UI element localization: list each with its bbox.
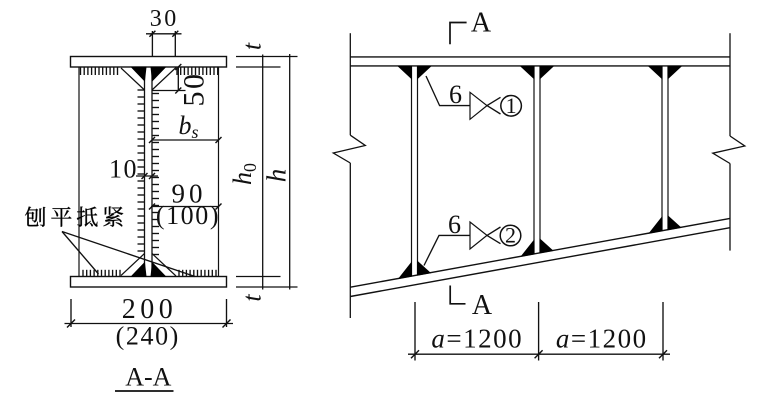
stiffener 1 bottom weld left triangle [399,263,412,279]
svg-text:(240): (240) [116,322,180,351]
dimension 50 tick top [175,64,181,70]
svg-text:t: t [238,294,267,302]
hatch ticks above bottom flange (right group) [179,270,216,277]
dimension 200 extension line right [226,299,228,327]
girder end edge left (upper segment) [349,33,351,135]
stiffener snipe diagonal top-left inner [132,68,145,81]
stiffener 3 left edge [661,66,663,231]
extension line flange bottom right [236,66,281,68]
break zigzag left [333,135,365,163]
svg-text:50: 50 [178,72,211,107]
dimension 50 extension line [152,90,186,92]
dimension a tick 1 [411,350,419,358]
dimension 30 extension line left [151,31,153,56]
dimension a extension line 2 [538,302,540,361]
girder end edge right (upper segment) [729,33,731,136]
weld callout 1 leader [426,76,470,106]
hatch ticks above bottom flange (left group) [83,270,120,277]
extension line bottom flange top right [236,276,281,278]
stiffener 2 right edge [539,66,541,253]
weld callout 2 leader [424,235,470,265]
web left edge [144,67,146,277]
dimension line h [289,54,291,290]
weld callout 2 circled number 2 [500,225,521,246]
svg-text:6: 6 [449,80,462,109]
stiffener left outer edge [78,67,80,277]
dimension line h0 [262,55,264,290]
weld fillet black triangle top-left of web [132,67,147,81]
weld callout 2 fillet symbol triangle [470,222,487,249]
dimension a extension line 1 [414,302,416,361]
stiffener 3 top weld left triangle [649,66,662,78]
dimension 90 tick right [216,204,222,210]
weld tick marks along web left side [138,90,145,251]
svg-text:A: A [472,290,493,321]
bottom chord lower line [350,228,730,297]
stiffener 2 top weld right triangle [540,66,553,78]
svg-text:30: 30 [150,6,179,32]
stiffener snipe diagonal bottom-left outer [121,254,145,276]
dimension b_s line [152,139,219,141]
stiffener 1 left edge [411,66,413,276]
stiffener 1 top weld right triangle [418,66,431,78]
dimension 10 tick right [149,173,155,179]
svg-text:a=1200: a=1200 [556,324,648,354]
hatch ticks under top flange (right group) [177,68,218,76]
svg-text:10: 10 [109,155,138,184]
svg-text:1: 1 [506,93,517,118]
section mark A top [450,23,467,45]
stiffener 3 top weld right triangle [668,66,681,78]
dimension 10 tick left [142,173,148,179]
svg-text:200: 200 [122,294,178,325]
svg-text:t: t [238,42,267,50]
stiffener right outer edge [218,67,220,277]
leader line to bottom-left weld [62,232,99,275]
stiffener snipe diagonal top-right outer [152,68,176,91]
dimension 30 tick left [149,31,155,37]
stiffener 3 bottom weld left triangle [650,217,663,233]
dimension 30 line [146,33,182,35]
dimension 10 line [136,175,158,177]
dimension 90 tick left [149,204,155,210]
dimension b_s tick right [216,137,222,143]
stiffener 2 bottom weld left triangle [522,240,535,256]
stiffener snipe diagonal top-right inner [152,68,165,81]
weld fillet black triangle bottom-right of web [151,263,166,277]
break zigzag right [713,136,745,164]
hatch ticks under top flange (left group) [81,68,118,76]
dimension a tick 3 [659,350,667,358]
stiffener snipe diagonal bottom-left inner [132,263,145,276]
dimension 200 tick right [223,320,231,328]
dimension 50 line vertical [177,67,179,91]
stiffener 2 top weld left triangle [521,66,534,78]
top flange plate [71,57,227,68]
stiffener 2 left edge [533,66,535,254]
svg-text:A: A [471,8,492,39]
svg-text:2: 2 [505,223,516,248]
weld callout 1 circled number 1 [501,96,522,117]
section mark A bottom [450,286,465,304]
svg-text:6: 6 [448,210,461,239]
dimension b_s tick left [149,137,155,143]
stiffener 1 bottom weld right triangle [418,262,431,276]
dimension 30 tick right [172,31,178,37]
weld fillet black triangle bottom-left of web [132,263,147,277]
extension line bottom flange bottom right [236,286,298,288]
section title underline [115,390,174,392]
stiffener 1 top weld left triangle [399,66,412,78]
dimension 50 tick bottom [175,88,181,94]
stiffener 2 bottom weld right triangle [540,239,553,253]
dimension 30 extension line right [174,31,176,56]
dimension 200 extension line left [70,299,72,327]
stiffener 3 right edge [667,66,669,230]
weld fillet black triangle top-right of web [151,67,166,81]
web right edge [151,67,153,277]
svg-text:(100): (100) [156,201,220,230]
extension line flange top right [236,56,298,58]
svg-text:h: h [262,169,292,183]
svg-text:bs: bs [179,111,199,142]
dimension a line [408,353,670,355]
girder end edge left (lower segment) [349,163,351,318]
girder end edge right (lower segment) [729,164,731,251]
bottom chord upper line [350,218,730,287]
weld callout 2 arrow [487,227,501,235]
stiffener snipe diagonal bottom-right outer [152,254,176,277]
stiffener 3 bottom weld right triangle [668,216,681,230]
dimension 200 tick left [67,320,75,328]
top flange lower line [350,65,730,67]
leader line to bottom-right hatch [62,232,195,277]
stiffener snipe diagonal top-left outer [121,68,145,90]
weld tick marks along web right side [152,94,159,255]
stiffener 1 right edge [417,66,419,275]
dimension 200 line [65,323,234,325]
label text 刨平抵紧 (drawn as glyph paths) [25,207,123,227]
svg-text:h0: h0 [228,163,260,185]
dimension 90/(100) line [151,206,219,208]
dimension a extension line 3 [662,302,664,361]
svg-text:A-A: A-A [125,363,171,392]
top flange upper line [350,56,730,58]
stiffener snipe diagonal bottom-right inner [152,263,165,276]
svg-text:a=1200: a=1200 [431,324,523,354]
bottom flange plate [71,277,227,288]
dimension a tick 2 [535,350,543,358]
weld callout 1 fillet symbol triangle [470,92,487,119]
weld callout 1 arrow [487,97,501,105]
